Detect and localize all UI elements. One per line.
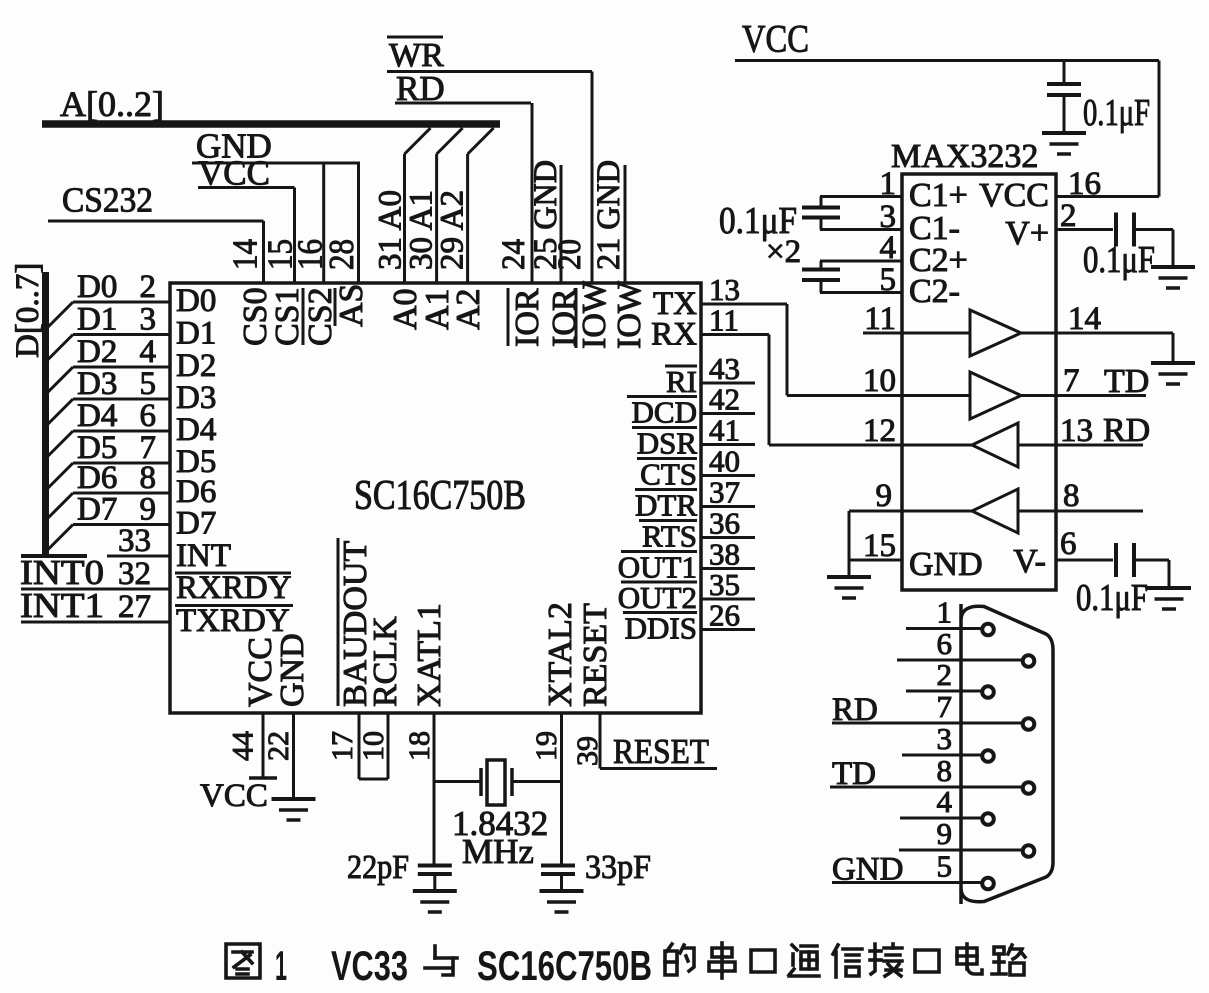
svg-text:32: 32: [118, 556, 151, 592]
svg-text:6: 6: [1060, 526, 1077, 562]
svg-text:C2-: C2-: [909, 273, 960, 310]
pin name CTS (active low): [637, 457, 697, 492]
pin name IOR (active low): [508, 288, 546, 347]
wire XATL1 to crystal: [434, 780, 481, 783]
svg-text:10: 10: [863, 363, 896, 399]
capacitor C 0.1uF decoupling: [1047, 84, 1081, 95]
svg-text:MAX3232: MAX3232: [891, 138, 1038, 175]
wire VCC rail: [735, 59, 1159, 62]
svg-text:TD: TD: [832, 756, 876, 792]
svg-text:5: 5: [937, 849, 953, 884]
wire pin 8: [1056, 510, 1143, 513]
svg-text:0.1μF: 0.1μF: [1083, 92, 1150, 134]
caption char 串: [709, 943, 735, 978]
wire INT1: [21, 621, 170, 624]
svg-text:0.1μF: 0.1μF: [1083, 239, 1155, 281]
svg-text:×2: ×2: [766, 234, 801, 270]
capacitor 33pF: [541, 866, 575, 875]
svg-text:RESET: RESET: [613, 732, 709, 771]
wire RX to MAX pin 12: [769, 335, 902, 446]
ground below 22pF: [413, 891, 457, 912]
caption char 的: [665, 944, 694, 975]
svg-text:D4: D4: [176, 412, 216, 448]
svg-text:21 GND: 21 GND: [591, 160, 627, 270]
svg-text:C1+: C1+: [909, 177, 968, 214]
svg-text:RD: RD: [1103, 412, 1150, 449]
svg-text:19: 19: [530, 731, 563, 761]
svg-text:D7: D7: [176, 506, 216, 542]
svg-text:4: 4: [880, 230, 897, 266]
wire pin 11 stub: [863, 332, 902, 335]
svg-text:DTR: DTR: [635, 488, 697, 523]
wire pin 26 DDIS: [701, 628, 755, 631]
crystal Y1 1.8432MHz: [481, 760, 512, 805]
wire CS232: [48, 220, 264, 223]
svg-text:CS1: CS1: [269, 287, 306, 346]
svg-text:D[0..7]: D[0..7]: [10, 263, 46, 358]
wire pin 19 XTAL2: [560, 713, 563, 864]
svg-text:11: 11: [864, 301, 896, 337]
svg-text:D4: D4: [77, 398, 117, 434]
svg-text:2: 2: [937, 657, 953, 692]
wire pin 5 C2-: [820, 291, 902, 294]
wire INT0: [21, 588, 170, 591]
wire pin 13 RD: [1056, 444, 1143, 447]
svg-text:GND: GND: [832, 852, 904, 888]
wire pin 40 CTS: [701, 474, 755, 477]
wire pin 14: [1056, 332, 1173, 335]
connector pin 5 wire: [832, 881, 981, 884]
svg-text:22: 22: [262, 731, 295, 761]
svg-text:40: 40: [709, 444, 740, 479]
svg-text:27: 27: [118, 589, 151, 625]
svg-text:18: 18: [403, 731, 436, 761]
connector pin 5 contact: [982, 878, 994, 890]
ground at MAX pin 15: [827, 577, 871, 598]
net label WR (active low): [387, 37, 444, 74]
wire VCC: [198, 186, 295, 189]
svg-text:1: 1: [275, 942, 287, 988]
svg-text:SC16C750B: SC16C750B: [477, 942, 652, 988]
svg-text:42: 42: [709, 382, 740, 417]
wire pin 7 TD: [1056, 394, 1146, 397]
wire D1: [47, 335, 170, 361]
connector pin 4 wire: [900, 817, 981, 820]
svg-text:IOR: IOR: [509, 288, 546, 347]
svg-text:D2: D2: [176, 348, 216, 384]
svg-text:0.1μF: 0.1μF: [1076, 577, 1148, 619]
ground at pin 14: [1151, 363, 1195, 384]
pin name DCD (active low): [627, 395, 697, 430]
svg-text:RCLK: RCLK: [367, 616, 404, 707]
svg-text:VC33: VC33: [331, 942, 408, 988]
wire D4: [47, 431, 170, 457]
connector pin 9 contact: [1023, 845, 1035, 857]
wire TX to MAX pin 10: [787, 304, 902, 396]
connector pin 8 wire: [830, 786, 1021, 789]
wire pin 2 V+: [1056, 228, 1113, 231]
svg-text:20: 20: [552, 239, 588, 270]
svg-text:3: 3: [937, 721, 953, 756]
pin name DSR (active low): [632, 426, 697, 461]
svg-text:VCC: VCC: [200, 778, 268, 814]
connector pin 2 wire: [906, 690, 981, 693]
driver buffer T2 (pin 10 to 7): [902, 372, 1056, 419]
wire pin 39 RESET: [599, 713, 602, 769]
capacitor C1 0.1uF: [802, 197, 840, 230]
wire pin 16 CS2: [322, 163, 325, 283]
svg-text:CS232: CS232: [62, 181, 153, 220]
caption char 信: [833, 945, 862, 977]
VCC terminal tick: [249, 776, 277, 780]
svg-text:1: 1: [880, 166, 897, 202]
driver buffer T1 (pin 11 to 14): [902, 310, 1056, 356]
svg-text:9: 9: [876, 478, 893, 514]
wire cap to ground: [560, 874, 563, 891]
wire pin 25 IOR: [560, 165, 563, 283]
wire pin 42 DCD: [701, 412, 755, 415]
wire pin 9 stub: [849, 510, 902, 513]
wire pin 14 CS0: [262, 221, 265, 283]
svg-text:AS: AS: [333, 284, 370, 327]
svg-text:D1: D1: [176, 316, 216, 352]
svg-text:1: 1: [937, 595, 953, 630]
connector pin 6 wire: [897, 659, 1021, 662]
connector pin 4 contact: [982, 813, 994, 825]
svg-text:24: 24: [496, 239, 532, 270]
wire D2: [47, 367, 170, 393]
svg-text:TXRDY: TXRDY: [176, 603, 290, 639]
wire RD: [395, 102, 531, 105]
svg-text:33: 33: [118, 523, 151, 559]
svg-text:17: 17: [326, 731, 359, 761]
ground at V+ cap: [1151, 267, 1195, 288]
connector pin 1 wire: [906, 627, 981, 630]
svg-text:D0: D0: [176, 283, 216, 319]
svg-text:IOW: IOW: [576, 280, 613, 349]
ground at V- cap: [1147, 588, 1191, 609]
svg-text:GND: GND: [274, 633, 311, 707]
wire cap to ground: [1134, 228, 1173, 231]
capacitor: [802, 208, 840, 218]
capacitor V- 0.1uF: [1116, 543, 1134, 577]
svg-text:8: 8: [1063, 478, 1080, 514]
svg-text:D1: D1: [77, 302, 117, 338]
svg-text:D2: D2: [77, 334, 117, 370]
svg-text:39: 39: [571, 736, 604, 766]
svg-text:D3: D3: [176, 380, 216, 416]
svg-text:INT1: INT1: [20, 586, 104, 625]
net label RESET: [600, 732, 717, 771]
connector pin 3 contact: [982, 750, 994, 762]
wire cap to ground: [1063, 95, 1066, 133]
pin name DTR (active low): [635, 488, 697, 523]
wire GND: [192, 162, 360, 165]
ground at pin 22: [272, 799, 316, 820]
svg-text:DCD: DCD: [632, 395, 697, 430]
caption char 图: [226, 944, 260, 978]
connector pin 1 contact: [982, 624, 994, 636]
svg-text:DSR: DSR: [637, 426, 698, 461]
wire D6: [47, 493, 170, 519]
caption char 接: [870, 944, 902, 976]
capacitor: [802, 270, 840, 281]
pin name RTS (active low): [639, 519, 697, 554]
svg-text:36: 36: [709, 506, 740, 541]
svg-text:9: 9: [937, 816, 953, 851]
wire pin 36 RTS: [701, 536, 755, 539]
svg-text:SC16C750B: SC16C750B: [354, 473, 526, 519]
wire pin 38 OUT1: [701, 567, 755, 570]
svg-text:37: 37: [709, 475, 740, 510]
wire pin 37 DTR: [701, 505, 755, 508]
svg-text:A2: A2: [450, 288, 487, 330]
pin name OUT1 (active low): [618, 550, 697, 585]
svg-text:RXRDY: RXRDY: [176, 570, 292, 606]
svg-text:15: 15: [863, 528, 896, 564]
caption: figure 1 VC33 and SC16C750B serial interface circuit: [0, 938, 1209, 988]
wire D3: [47, 399, 170, 425]
svg-text:14: 14: [1068, 301, 1101, 337]
wire pin 3 C1-: [820, 228, 902, 231]
connector pin 7 wire: [832, 722, 1021, 725]
wire D5: [47, 463, 170, 489]
wire pin A1: [437, 128, 463, 283]
wire down to ground: [1168, 560, 1171, 588]
ground below 33pF: [540, 891, 584, 912]
bus terminator bar: [21, 554, 87, 558]
svg-text:XATL1: XATL1: [411, 603, 448, 707]
svg-text:12: 12: [863, 413, 896, 449]
svg-text:RD: RD: [832, 692, 878, 728]
svg-text:V+: V+: [1005, 215, 1049, 252]
svg-text:44: 44: [227, 731, 260, 761]
svg-text:A[0..2]: A[0..2]: [60, 84, 164, 124]
connector pin 9 wire: [899, 849, 1021, 852]
connector pin 2 contact: [982, 686, 994, 698]
wire cap to ground: [433, 874, 436, 891]
svg-text:D3: D3: [77, 366, 117, 402]
svg-text:16: 16: [1068, 166, 1101, 202]
svg-text:4: 4: [140, 334, 157, 370]
pin name AS (active low): [333, 284, 370, 327]
caption char 与: [425, 946, 457, 975]
wire pin 16 VCC: [1056, 195, 1159, 198]
wire down to ground: [1172, 230, 1175, 268]
receiver buffer R1 (pin 13 to 12): [902, 423, 1056, 467]
svg-text:11: 11: [709, 303, 739, 338]
wire VCC to decoupling cap: [1063, 61, 1066, 85]
wire pin 44 VCC: [262, 713, 265, 778]
wire D0: [47, 302, 170, 328]
svg-text:VCC: VCC: [979, 177, 1049, 214]
receiver buffer R2 (pin 8 to 9): [902, 489, 1056, 533]
caption char 电: [957, 944, 982, 974]
svg-text:6: 6: [937, 626, 953, 661]
pin name RXRDY (active low): [175, 570, 292, 606]
svg-text:RX: RX: [651, 317, 697, 353]
pin name DDIS (active low): [623, 611, 697, 646]
caption char 通: [789, 945, 819, 976]
wire cap to ground: [1134, 559, 1169, 562]
svg-text:4: 4: [937, 784, 953, 819]
svg-text:DDIS: DDIS: [625, 611, 697, 646]
wire D7: [47, 525, 170, 551]
wire pin 20 IOW: [591, 72, 594, 284]
caption char 路: [992, 945, 1025, 975]
pin name OUT2 (active low): [618, 580, 697, 615]
svg-text:2: 2: [1060, 198, 1077, 234]
wire pin 4 C2+: [820, 260, 902, 263]
caption char 口: [915, 950, 939, 972]
wire VCC rail drop to pin 16: [1158, 61, 1161, 197]
connector pin 6 contact: [1023, 655, 1035, 667]
svg-text:GND: GND: [909, 546, 983, 583]
svg-text:7: 7: [937, 689, 953, 724]
wire WR: [387, 70, 592, 73]
svg-text:41: 41: [709, 413, 740, 448]
svg-text:RTS: RTS: [642, 519, 697, 554]
wire pin 22 GND: [292, 713, 295, 799]
svg-text:8: 8: [937, 753, 953, 788]
wire pin 33: [107, 555, 170, 558]
svg-text:5: 5: [880, 262, 897, 298]
pin name BAUDOUT (active low): [337, 538, 374, 707]
svg-text:29 A2: 29 A2: [435, 190, 471, 270]
svg-text:TD: TD: [1104, 363, 1149, 400]
svg-text:13: 13: [1060, 413, 1093, 449]
svg-text:3: 3: [140, 302, 157, 338]
caption char 口: [751, 950, 775, 972]
svg-text:XTAL2: XTAL2: [542, 602, 579, 707]
svg-text:V-: V-: [1013, 543, 1046, 580]
svg-text:33pF: 33pF: [585, 849, 651, 886]
transceiver U2 MAX3232 body: [902, 174, 1056, 590]
pin name IOW (active low): [576, 280, 613, 349]
wire pin 14 to ground: [1172, 333, 1175, 363]
svg-text:26: 26: [709, 598, 740, 633]
svg-text:7: 7: [1063, 363, 1080, 399]
wire pin 18 XATL1: [433, 713, 436, 864]
wire pin 15 stub: [849, 559, 902, 562]
svg-text:14: 14: [226, 239, 265, 270]
wire pin 13 TX: [701, 303, 787, 306]
svg-text:10: 10: [357, 731, 390, 761]
svg-text:6: 6: [140, 398, 157, 434]
wire pin 21 IOW: [624, 165, 627, 283]
wire pin 35 OUT2: [701, 598, 755, 601]
connector J1 DB9 face line: [959, 604, 963, 904]
svg-text:2: 2: [140, 269, 157, 305]
svg-text:22pF: 22pF: [347, 849, 409, 886]
svg-text:VCC: VCC: [742, 18, 809, 61]
wire pin 41 DSR: [701, 443, 755, 446]
pin name CS2 (active low): [302, 287, 339, 346]
svg-text:D0: D0: [77, 269, 117, 305]
svg-text:RESET: RESET: [577, 603, 614, 707]
wire pin 1 C1+: [820, 195, 902, 198]
svg-text:IOW: IOW: [611, 280, 648, 349]
wire pin 6 V-: [1056, 559, 1113, 562]
svg-text:5: 5: [140, 366, 157, 402]
pin name TXRDY (active low): [175, 603, 293, 639]
bus A[0..2]: [42, 120, 500, 128]
UART U1 SC16C750B body: [170, 283, 701, 713]
wire pin 28 AS: [357, 163, 360, 283]
pin name RI (active low): [665, 364, 697, 399]
wire pin 15 CS1: [293, 188, 296, 284]
connector pin 3 wire: [902, 754, 981, 757]
wire pin 9 to pin 15 to ground: [848, 511, 851, 577]
wire pin A0: [405, 128, 431, 283]
ground below decoupling cap: [1042, 133, 1086, 154]
svg-text:INT: INT: [176, 538, 231, 574]
capacitor C2 0.1uF: [802, 261, 840, 293]
connector pin 8 contact: [1023, 782, 1035, 794]
svg-text:MHz: MHz: [462, 832, 534, 871]
svg-text:28: 28: [322, 239, 361, 270]
wire pin 43 RI: [701, 382, 755, 385]
connector pin 7 contact: [1023, 718, 1035, 730]
wire pin 24 IOR: [531, 103, 534, 283]
connector J1 DB9 shell: [961, 606, 1053, 901]
wire pins 17-10 BAUDOUT-RCLK strap: [359, 713, 388, 779]
bus D[0..7]: [42, 272, 49, 554]
wire pin 11 RX: [701, 333, 769, 336]
wire pin A2: [468, 128, 494, 283]
svg-text:CTS: CTS: [640, 457, 697, 492]
capacitor V+ 0.1uF: [1116, 213, 1134, 247]
capacitor 22pF: [418, 866, 452, 875]
wire crystal to XTAL2: [512, 780, 562, 783]
svg-text:D7: D7: [77, 492, 117, 528]
